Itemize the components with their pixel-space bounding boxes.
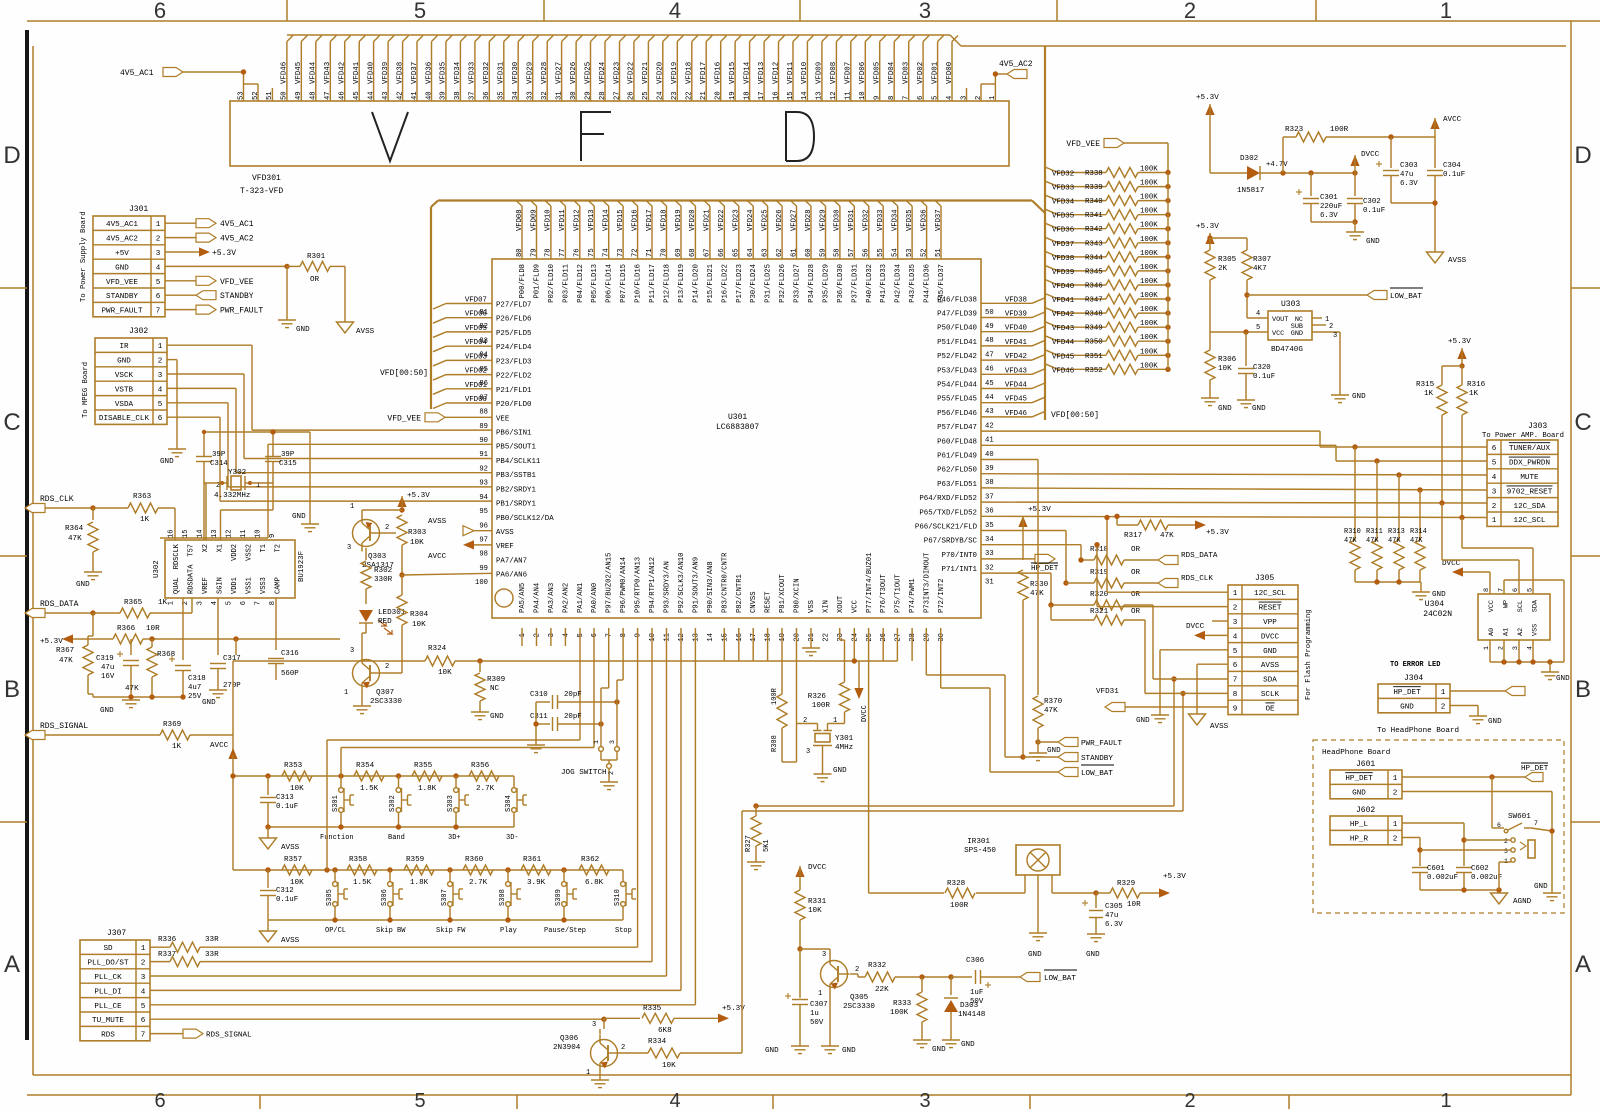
svg-text:10K: 10K — [438, 669, 452, 677]
svg-text:3D+: 3D+ — [448, 834, 461, 842]
svg-text:6.3V: 6.3V — [1105, 921, 1123, 929]
junction dots J303 pullups — [1352, 444, 1464, 520]
svg-text:VFD[00:50]: VFD[00:50] — [380, 369, 428, 378]
svg-text:100R: 100R — [771, 687, 779, 705]
wire long row A to right side — [753, 676, 1176, 808]
svg-text:63: 63 — [761, 248, 769, 257]
svg-text:P32/FLD26: P32/FLD26 — [779, 264, 787, 303]
svg-text:HP_R: HP_R — [1350, 836, 1369, 844]
svg-text:25V: 25V — [188, 693, 202, 701]
svg-text:100K: 100K — [1140, 292, 1158, 300]
U304 pin 2 A1 label — [1498, 628, 1511, 650]
wire power gnd rail — [1311, 222, 1355, 232]
svg-text:P06/FLD14: P06/FLD14 — [606, 264, 614, 303]
svg-text:21: 21 — [700, 91, 708, 100]
svg-text:100K: 100K — [1140, 306, 1158, 314]
svg-text:U302: U302 — [153, 560, 161, 578]
resistor R302 330R — [361, 548, 393, 604]
svg-text:PA7/AN7: PA7/AN7 — [496, 558, 527, 566]
svg-text:VFD37: VFD37 — [1052, 241, 1074, 249]
svg-text:For Flash Programming: For Flash Programming — [1305, 609, 1313, 700]
wire AVCC rail to R324 row — [233, 661, 425, 735]
svg-text:100R: 100R — [1330, 126, 1349, 134]
U301 pin 50 P46/FLD38 label — [937, 296, 994, 317]
connector J305 For Flash Programming — [1228, 574, 1313, 715]
svg-text:78: 78 — [545, 248, 553, 257]
svg-text:MUTE: MUTE — [1520, 474, 1539, 482]
svg-text:52: 52 — [920, 248, 928, 257]
svg-text:2: 2 — [1184, 1090, 1195, 1109]
U301 pin 92 PB4/SCLK11 label — [479, 458, 541, 474]
wire IR301 left pin — [976, 875, 1025, 893]
svg-text:C316: C316 — [281, 650, 299, 658]
svg-text:GND: GND — [1432, 591, 1446, 599]
svg-text:VFD46: VFD46 — [1005, 410, 1027, 418]
svg-text:VFD41: VFD41 — [1052, 297, 1075, 305]
svg-text:P71/INT1: P71/INT1 — [942, 566, 978, 574]
svg-text:RDSDATA: RDSDATA — [188, 564, 196, 594]
svg-text:R369: R369 — [163, 721, 182, 729]
wire U304 WP — [1504, 580, 1564, 662]
wire J307 PLL_CE — [150, 628, 695, 1005]
power +5.3V R317 — [1195, 520, 1229, 537]
svg-text:VFD40: VFD40 — [367, 62, 375, 84]
net DVCC arrow U301 — [854, 661, 869, 722]
svg-text:P30/FLD24: P30/FLD24 — [750, 264, 758, 303]
svg-text:R343: R343 — [1085, 240, 1103, 248]
svg-text:11: 11 — [240, 530, 248, 538]
svg-text:47u: 47u — [1105, 912, 1118, 920]
net flag RDS_SIGNAL J307 — [183, 1029, 252, 1040]
wire switch row1 bottom rail — [265, 824, 514, 838]
headphone board dashed box — [1313, 740, 1564, 913]
svg-text:9: 9 — [635, 633, 643, 637]
net DVCC arrow J305 — [1186, 623, 1205, 640]
svg-text:R310: R310 — [1344, 528, 1361, 536]
svg-text:10K: 10K — [290, 785, 304, 793]
svg-text:AVSS: AVSS — [428, 518, 447, 526]
svg-text:5: 5 — [577, 633, 585, 637]
svg-text:VFD04: VFD04 — [465, 339, 488, 347]
svg-text:HP_DET: HP_DET — [1031, 565, 1059, 573]
svg-text:P77/INT4/BUZ01: P77/INT4/BUZ01 — [866, 553, 874, 613]
U301 pin 4 PA2/AN2 label — [562, 583, 570, 638]
resistor R347 100K / net VFD41 — [1045, 292, 1171, 305]
wire U301 pin37 to J303 9702_RESET — [981, 488, 1487, 490]
svg-text:R337: R337 — [158, 951, 176, 959]
svg-text:2N3904: 2N3904 — [553, 1044, 581, 1052]
svg-text:VFD34: VFD34 — [1052, 199, 1075, 207]
svg-text:4: 4 — [562, 633, 570, 637]
svg-text:VFD01: VFD01 — [931, 61, 939, 84]
svg-text:C307: C307 — [810, 1001, 828, 1009]
svg-text:VFD04: VFD04 — [888, 61, 896, 84]
U302 pin 3 VREF label — [197, 577, 211, 605]
U301 pin 69 P13/FLD19 / net VFD19 — [675, 201, 686, 303]
svg-text:P54/FLD44: P54/FLD44 — [937, 382, 977, 390]
wire VFD_VEE to ladder rail — [1122, 143, 1168, 173]
svg-text:VFD33: VFD33 — [1052, 185, 1074, 193]
svg-text:7: 7 — [156, 308, 161, 316]
resistor R323 100R — [1283, 126, 1435, 173]
U301 pin 46 P52/FLD42 label — [937, 353, 994, 374]
svg-text:VFD42: VFD42 — [1005, 353, 1027, 361]
svg-text:VFD02: VFD02 — [465, 368, 487, 376]
net flag LOW_BAT right — [990, 765, 1114, 778]
svg-text:R311: R311 — [1366, 528, 1383, 536]
svg-text:5: 5 — [226, 601, 234, 605]
svg-text:R349: R349 — [1085, 325, 1103, 333]
svg-text:43: 43 — [382, 91, 390, 100]
svg-text:TUNER/AUX: TUNER/AUX — [1509, 445, 1550, 453]
wire HP_L to C602 — [1402, 823, 1511, 866]
svg-text:1K: 1K — [1424, 390, 1434, 398]
svg-text:10K: 10K — [1218, 365, 1232, 373]
svg-text:VFD18: VFD18 — [686, 62, 694, 84]
switch S304 3D- — [505, 776, 527, 842]
connector J301 — [80, 205, 165, 317]
svg-text:36: 36 — [985, 508, 994, 516]
svg-text:10R: 10R — [1127, 901, 1141, 909]
svg-text:SPS-450: SPS-450 — [964, 847, 996, 855]
svg-text:C602: C602 — [1471, 865, 1489, 873]
U301 pin 58 P36/FLD30 / net VFD30 — [834, 201, 845, 303]
power +5.3V D302 — [1196, 94, 1247, 173]
svg-text:VFD39: VFD39 — [382, 62, 390, 84]
svg-text:Pause/Step: Pause/Step — [544, 927, 586, 935]
svg-text:VFD32: VFD32 — [483, 62, 491, 84]
U301 pin 21 VSS label — [808, 600, 816, 642]
svg-text:R326: R326 — [808, 693, 827, 701]
svg-text:3: 3 — [156, 250, 161, 258]
wire J601 GND — [1402, 792, 1552, 894]
transistor Q306 2N3904 — [553, 1018, 625, 1077]
resistor R326 100R — [808, 628, 850, 724]
U301 pin 85 P23/FLD3 / net VFD03 — [433, 353, 531, 374]
svg-text:1: 1 — [1233, 590, 1238, 598]
svg-text:PA3/AN3: PA3/AN3 — [548, 583, 556, 613]
svg-text:D: D — [1574, 142, 1591, 169]
resistor R331 10K — [795, 890, 827, 949]
svg-text:DDX_PWRDN: DDX_PWRDN — [1509, 460, 1550, 468]
svg-text:69: 69 — [675, 248, 683, 257]
avss flag R301 — [337, 322, 375, 336]
svg-text:R370: R370 — [1044, 698, 1063, 706]
svg-text:VFD44: VFD44 — [310, 61, 318, 84]
svg-text:C302: C302 — [1363, 198, 1381, 206]
svg-text:VFD36: VFD36 — [1052, 227, 1074, 235]
svg-text:57: 57 — [848, 248, 856, 257]
wire IR301 right pin — [1052, 875, 1099, 896]
net flag RDS_DATA right — [1158, 552, 1218, 565]
svg-text:VREF: VREF — [496, 543, 514, 551]
svg-text:P02/FLD10: P02/FLD10 — [548, 264, 556, 303]
svg-text:D302: D302 — [1240, 155, 1259, 163]
svg-text:XIN: XIN — [823, 600, 831, 613]
capacitor C318 4u7 25V — [169, 598, 206, 701]
svg-text:10K: 10K — [662, 1062, 676, 1070]
capacitor C310 20pF — [530, 691, 620, 709]
svg-text:R366: R366 — [117, 625, 136, 633]
svg-text:R324: R324 — [428, 645, 447, 653]
svg-text:4: 4 — [1256, 310, 1260, 318]
ground R370 — [1029, 747, 1061, 761]
svg-text:C317: C317 — [223, 655, 241, 663]
wire U301 pin34 — [981, 531, 1069, 586]
svg-text:10: 10 — [859, 91, 867, 100]
U302 pin 11 VSS2 label — [240, 530, 254, 561]
svg-text:RESET: RESET — [765, 591, 773, 613]
svg-text:J601: J601 — [1356, 760, 1375, 769]
wire J307 TU_MUTE — [150, 1017, 607, 1022]
svg-text:Q305: Q305 — [850, 994, 869, 1002]
wire crystal top rail to GND — [202, 429, 310, 524]
svg-text:98: 98 — [479, 551, 488, 559]
svg-text:22: 22 — [686, 91, 694, 100]
resistor R345 100K / net VFD39 — [1045, 264, 1171, 277]
svg-text:VFD29: VFD29 — [527, 62, 535, 84]
capacitor C311 20pF — [530, 713, 604, 731]
svg-text:S302: S302 — [389, 795, 397, 812]
svg-text:VOUT: VOUT — [1272, 316, 1288, 324]
svg-text:R339: R339 — [1085, 184, 1103, 192]
net flag HP_DET J304 — [1505, 687, 1525, 696]
switch S307 Skip FW — [436, 870, 466, 935]
svg-text:GND: GND — [1556, 675, 1570, 683]
svg-text:100K: 100K — [1140, 180, 1158, 188]
svg-text:SCLK: SCLK — [1261, 691, 1280, 699]
svg-text:AVSS: AVSS — [496, 529, 514, 537]
svg-text:R348: R348 — [1085, 311, 1103, 319]
svg-text:P44/FLD36: P44/FLD36 — [924, 264, 932, 303]
svg-text:VFD11: VFD11 — [787, 61, 795, 84]
switch S309 Pause/Step — [544, 870, 586, 935]
svg-text:R350: R350 — [1085, 339, 1103, 347]
svg-text:VSDA: VSDA — [115, 401, 134, 409]
svg-text:3: 3 — [919, 1090, 930, 1109]
op-amp U304 24C02N body — [1423, 594, 1550, 640]
resistor R369 1K — [160, 721, 233, 751]
svg-text:BD4740G: BD4740G — [1271, 346, 1303, 354]
svg-text:Y301: Y301 — [835, 735, 854, 743]
svg-text:STANDBY: STANDBY — [106, 293, 138, 301]
svg-text:100K: 100K — [1140, 222, 1158, 230]
U303 right pins — [1312, 316, 1340, 395]
svg-text:5: 5 — [414, 1090, 425, 1109]
bus VFD[00:50] above U301 — [438, 201, 1045, 214]
svg-text:AVSS: AVSS — [1261, 662, 1280, 670]
svg-text:P97/BUZ02/AN15: P97/BUZ02/AN15 — [606, 553, 614, 613]
resistor R343 100K / net VFD37 — [1045, 236, 1171, 249]
ground Y301 — [814, 767, 848, 782]
avss flag power — [1427, 252, 1467, 265]
svg-text:VFD03: VFD03 — [903, 62, 911, 84]
svg-text:45: 45 — [353, 91, 361, 100]
svg-text:29: 29 — [924, 633, 932, 642]
svg-text:P75/T1OUT: P75/T1OUT — [895, 573, 903, 613]
svg-text:47K: 47K — [68, 535, 82, 543]
svg-text:7: 7 — [606, 633, 614, 637]
svg-text:6: 6 — [154, 0, 166, 23]
svg-text:P42/FLD34: P42/FLD34 — [895, 264, 903, 303]
svg-text:1: 1 — [1440, 0, 1452, 23]
svg-text:R334: R334 — [648, 1038, 667, 1046]
svg-text:VFD26: VFD26 — [570, 62, 578, 84]
power +5.3V U303 — [1196, 223, 1219, 244]
svg-text:23: 23 — [671, 91, 679, 100]
ground R333 — [913, 1040, 946, 1054]
svg-text:16: 16 — [168, 530, 176, 538]
wire U301 pin21 VSS gnd — [810, 628, 812, 648]
VFD301 pins 50-4 with VFD46..VFD00 net labels — [237, 36, 997, 102]
svg-text:56: 56 — [863, 248, 871, 257]
power +5.3V J301 — [199, 247, 236, 258]
svg-text:OR: OR — [1131, 569, 1141, 577]
resistor R320 0R — [1051, 591, 1228, 679]
svg-text:PA4/AN4: PA4/AN4 — [534, 583, 542, 613]
svg-text:RDS_CLK: RDS_CLK — [1181, 575, 1213, 583]
svg-text:P17/FLD23: P17/FLD23 — [736, 264, 744, 303]
resistor R357 10K — [282, 856, 312, 887]
ground Q307 — [353, 706, 371, 714]
svg-text:13: 13 — [211, 530, 219, 538]
svg-text:HP_DET: HP_DET — [1345, 775, 1373, 783]
svg-text:P14/FLD20: P14/FLD20 — [692, 264, 700, 303]
wire U301 pin39 to PWR_FAULT node — [981, 459, 1038, 461]
svg-text:P73INT3/DIMOUT: P73INT3/DIMOUT — [924, 552, 932, 613]
svg-text:27: 27 — [613, 91, 621, 100]
resistor R303 10K — [397, 515, 427, 575]
svg-text:28: 28 — [909, 633, 917, 642]
svg-text:P05/FLD13: P05/FLD13 — [591, 264, 599, 303]
U301 pin 34 P66/SCLK21/FLD label — [915, 524, 994, 545]
resistor R313 47K — [1388, 475, 1405, 582]
svg-text:PWR_FAULT: PWR_FAULT — [101, 308, 142, 316]
svg-text:VFD24: VFD24 — [747, 209, 755, 231]
jog switch — [561, 628, 623, 782]
wire J305 pin2 RESET — [1094, 542, 1228, 607]
svg-text:WP: WP — [1503, 600, 1511, 608]
svg-text:2: 2 — [385, 524, 389, 532]
svg-text:P95/RTP0/AN13: P95/RTP0/AN13 — [635, 557, 643, 613]
switch S306 Skip BW — [376, 870, 406, 935]
svg-text:To Power AMP. Board: To Power AMP. Board — [1482, 432, 1564, 440]
U301 pin 42 P56/FLD46 label — [937, 410, 994, 431]
svg-text:47K: 47K — [125, 685, 139, 693]
svg-text:J307: J307 — [107, 929, 126, 938]
svg-text:40: 40 — [985, 451, 994, 459]
svg-text:R361: R361 — [523, 856, 542, 864]
wire J301 pin2 — [165, 237, 196, 239]
svg-text:P74/PWM1: P74/PWM1 — [909, 578, 917, 613]
svg-text:VFD27: VFD27 — [555, 62, 563, 84]
svg-text:VFD43: VFD43 — [1052, 325, 1074, 333]
svg-text:80: 80 — [516, 248, 524, 257]
svg-text:AVCC: AVCC — [1443, 116, 1462, 124]
svg-text:VFD12: VFD12 — [772, 62, 780, 84]
svg-text:GND: GND — [1086, 951, 1100, 959]
svg-text:33R: 33R — [205, 951, 219, 959]
U304 pin 3 A2 label — [1512, 628, 1525, 650]
svg-text:3D-: 3D- — [506, 834, 519, 842]
U301 pin 51 P45/FLD37 / net VFD37 — [935, 201, 946, 303]
svg-text:29: 29 — [584, 91, 592, 100]
svg-text:100K: 100K — [1140, 334, 1158, 342]
svg-text:P57/FLD47: P57/FLD47 — [937, 424, 977, 432]
switch S301 Function — [320, 776, 354, 842]
svg-text:C319: C319 — [96, 655, 114, 663]
resistor R334 10K — [620, 811, 743, 1070]
svg-text:R316: R316 — [1467, 381, 1486, 389]
svg-text:1K: 1K — [172, 743, 182, 751]
svg-text:4u7: 4u7 — [188, 684, 201, 692]
svg-text:9702_RESET: 9702_RESET — [1507, 488, 1553, 496]
svg-text:67: 67 — [704, 248, 712, 257]
svg-text:To HeadPhone Board: To HeadPhone Board — [1377, 727, 1459, 735]
wire R303 to U301 pin100 — [399, 572, 492, 577]
ground J301 — [278, 320, 310, 334]
svg-text:25: 25 — [866, 633, 874, 642]
svg-text:36: 36 — [483, 91, 491, 100]
svg-text:PB5/SOUT1: PB5/SOUT1 — [496, 444, 536, 452]
U301 pin 68 P14/FLD20 / net VFD20 — [689, 201, 700, 303]
svg-text:GND: GND — [765, 1047, 779, 1055]
svg-text:2: 2 — [803, 717, 807, 725]
net DVCC arrow power — [1350, 151, 1379, 173]
power DVCC IR section — [795, 864, 826, 890]
U301 bottom pin stubs short — [522, 628, 912, 661]
wire U304 bottom rail — [1490, 640, 1564, 672]
wire J305 pin4 DVCC — [1205, 634, 1228, 636]
svg-text:37: 37 — [985, 493, 994, 501]
svg-text:2: 2 — [608, 771, 615, 775]
svg-text:OE: OE — [1265, 705, 1275, 713]
svg-text:A1: A1 — [1503, 628, 1511, 636]
svg-text:71: 71 — [646, 248, 654, 257]
U301 pin 73 P07/FLD15 / net VFD15 — [617, 201, 628, 303]
switch S308 Play — [499, 870, 521, 935]
diode D303 1N4148 — [944, 977, 986, 1040]
svg-text:C310: C310 — [530, 691, 548, 699]
svg-text:VFD01: VFD01 — [465, 382, 488, 390]
wire U301 pin40 to J303 DDX_PWRDN — [981, 445, 1487, 461]
svg-text:C: C — [3, 409, 20, 436]
svg-text:T1: T1 — [260, 544, 268, 552]
ground U301 VSS — [802, 648, 820, 656]
ground Q306 — [591, 1080, 609, 1088]
svg-text:44: 44 — [985, 394, 994, 402]
svg-text:3: 3 — [919, 0, 931, 23]
svg-text:10: 10 — [649, 633, 657, 642]
diode D302 1N5817 — [1237, 155, 1288, 195]
svg-text:4K7: 4K7 — [1253, 265, 1267, 273]
svg-text:12C_SCL: 12C_SCL — [1514, 517, 1546, 525]
U301 pin 91 PB5/SOUT1 label — [479, 444, 536, 460]
svg-text:9: 9 — [1233, 705, 1238, 713]
svg-text:VFD11: VFD11 — [559, 209, 567, 231]
svg-text:VFD06: VFD06 — [859, 62, 867, 84]
svg-text:20pF: 20pF — [564, 691, 582, 699]
svg-text:1uF: 1uF — [970, 989, 983, 997]
svg-text:IR: IR — [119, 343, 129, 351]
svg-text:3: 3 — [197, 601, 205, 605]
svg-text:A: A — [1575, 951, 1591, 978]
svg-text:VFD16: VFD16 — [631, 209, 639, 231]
resistor R332 22K — [850, 962, 954, 994]
svg-text:0.1uF: 0.1uF — [276, 896, 298, 904]
svg-text:VSCK: VSCK — [115, 372, 134, 380]
svg-text:5: 5 — [158, 401, 163, 409]
